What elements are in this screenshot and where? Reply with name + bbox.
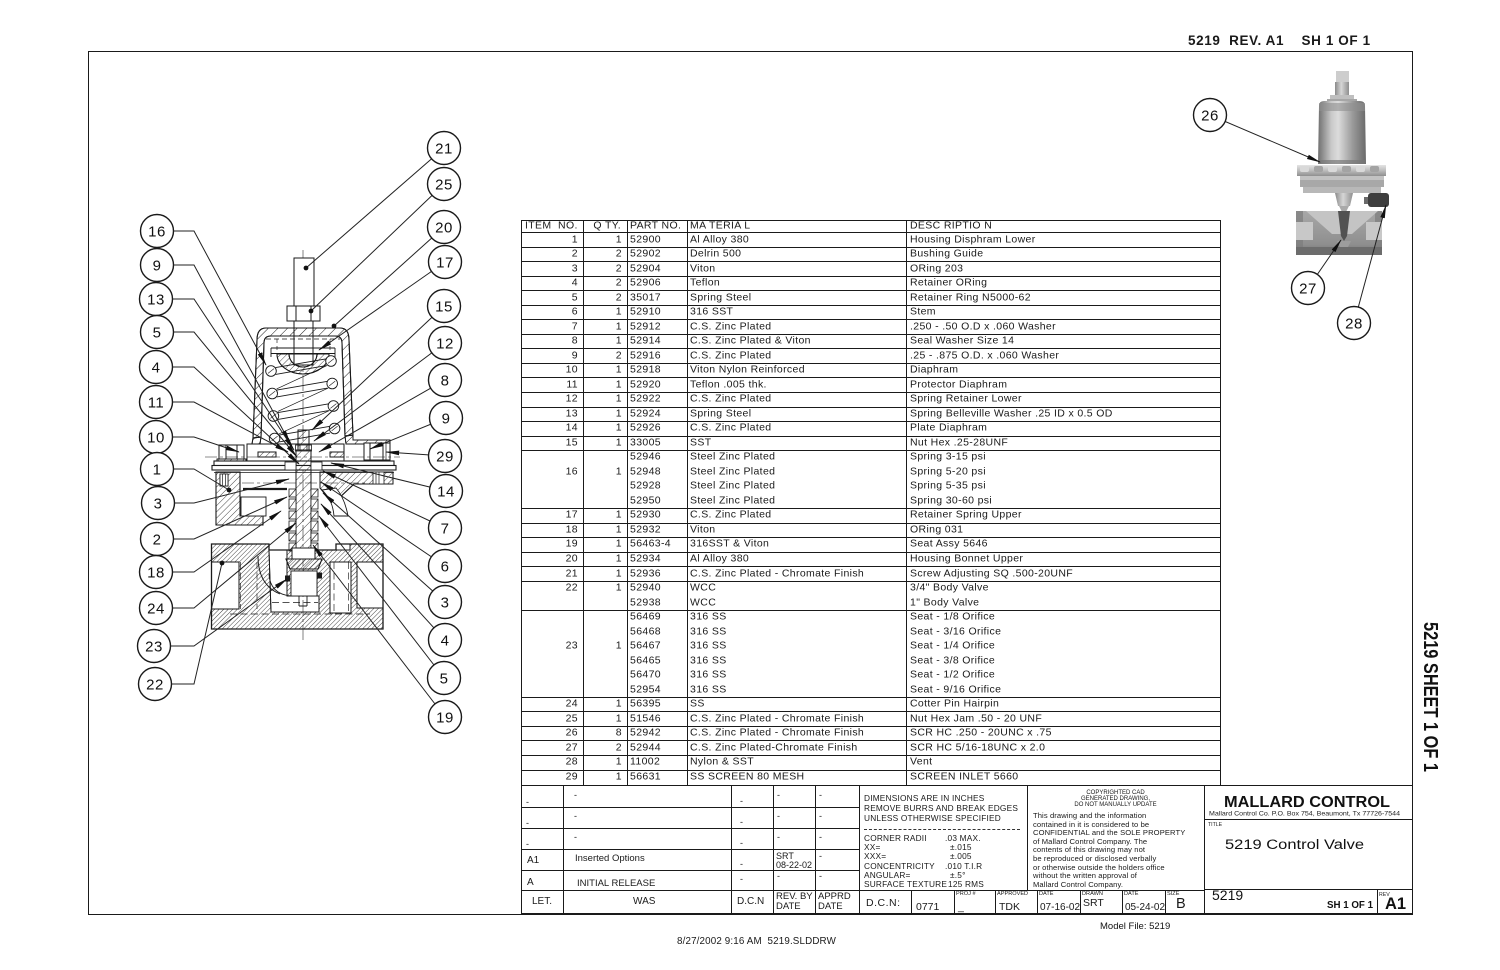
leader line balloon 26 (1210, 115, 1320, 162)
revision history block (521, 785, 563, 890)
hex bolt left item 26 (217, 445, 246, 463)
spring (item 16) (266, 356, 340, 444)
svg-text:14: 14 (437, 483, 455, 500)
housing diaphram lower item 1 (216, 472, 263, 525)
svg-text:29: 29 (436, 448, 454, 465)
balloon 14 (430, 475, 463, 508)
svg-text:19: 19 (436, 709, 454, 726)
balloon 18 (140, 556, 173, 589)
photo vent knob (1364, 197, 1370, 204)
svg-text:25: 25 (435, 176, 453, 193)
leader line balloon 20 (334, 227, 444, 326)
seat assy items 19 23 (292, 548, 315, 559)
leader line balloon 4 (321, 504, 445, 640)
photo: product rendering of 5219 valve (1296, 71, 1389, 255)
leader line balloon 6 (321, 482, 445, 566)
leader line balloon 23 (154, 579, 287, 646)
balloon 26 (1194, 99, 1227, 132)
bonnet skirt (252, 437, 261, 444)
svg-text:4: 4 (441, 632, 450, 649)
svg-text:24: 24 (147, 600, 165, 617)
balloon 19 (429, 701, 462, 734)
balloon 12 (429, 327, 462, 360)
leader line balloon 16 (157, 231, 266, 365)
balloon 13 (140, 283, 173, 316)
leader line balloon 22 (155, 563, 222, 684)
leader line balloon 14 (331, 463, 446, 491)
balloon 23 (138, 630, 171, 663)
leader line balloon 13 (156, 299, 294, 450)
leader line balloon 3 (323, 493, 445, 602)
leader line balloon 15 (312, 306, 444, 430)
leader line balloon 2 (157, 497, 287, 539)
balloon 4 (140, 351, 173, 384)
leader line balloon 17 (319, 262, 445, 350)
photo flange (1297, 165, 1386, 176)
balloon 21 (428, 132, 461, 165)
leader line balloon 4 (156, 367, 299, 464)
balloon 15 (428, 290, 461, 323)
leader line balloon 21 (306, 148, 444, 268)
balloon 27 (1292, 272, 1325, 305)
photo bonnet cylinder (1318, 101, 1366, 164)
flange band (247, 444, 344, 461)
svg-text:3: 3 (154, 495, 163, 512)
svg-text:17: 17 (436, 254, 454, 271)
svg-text:16: 16 (148, 223, 166, 240)
balloon 10 (140, 421, 173, 454)
leader line balloon 3 (158, 479, 289, 503)
dimensions notes (864, 793, 985, 803)
svg-text:28: 28 (1345, 315, 1363, 332)
photo neck (1335, 193, 1353, 206)
bottom file stamp (677, 936, 836, 947)
svg-text:15: 15 (435, 298, 453, 315)
svg-text:5: 5 (153, 324, 162, 341)
svg-text:8: 8 (441, 372, 450, 389)
balloon 8 (429, 364, 462, 397)
leader line balloon 1 (157, 469, 229, 490)
balloon 6 (429, 550, 462, 583)
nut hex item 15 (296, 445, 312, 451)
svg-text:1: 1 (153, 461, 162, 478)
leader line balloon 10 (156, 437, 239, 452)
svg-text:22: 22 (146, 676, 164, 693)
balloon 9 (430, 402, 463, 435)
balloon 5 (428, 662, 461, 695)
leader line balloon 5 (157, 332, 297, 457)
svg-text:23: 23 (145, 638, 163, 655)
svg-text:9: 9 (442, 410, 451, 427)
port thread hidden lines (230, 562, 370, 614)
svg-text:18: 18 (147, 564, 165, 581)
top right sheet id text (1188, 33, 1371, 48)
svg-text:5: 5 (440, 670, 449, 687)
balloon 28 (1338, 307, 1371, 340)
svg-text:2: 2 (153, 531, 162, 548)
svg-text:9: 9 (153, 257, 162, 274)
leader line balloon 18 (156, 511, 281, 572)
balloon 29 (429, 440, 462, 473)
parts list table (521, 220, 1221, 787)
balloon 11 (140, 386, 173, 419)
balloon 7 (429, 512, 462, 545)
cotter pin item 24 (299, 596, 307, 606)
svg-text:11: 11 (148, 394, 165, 411)
svg-text:6: 6 (441, 558, 450, 575)
leader line balloon 11 (156, 402, 288, 452)
balloon 17 (429, 246, 462, 279)
leader line balloon 27 (1308, 240, 1341, 288)
leader line balloon 5 (319, 516, 444, 678)
leader line balloon 19 (313, 545, 445, 717)
svg-text:10: 10 (147, 429, 165, 446)
balloon 20 (428, 211, 461, 244)
svg-text:12: 12 (436, 335, 454, 352)
balloon 1 (141, 453, 174, 486)
screw shank (294, 321, 313, 365)
body valve item 22 (212, 544, 384, 629)
leader line balloon 7 (323, 471, 445, 528)
leader line balloon 9 (370, 418, 446, 449)
leader line balloon 24 (156, 523, 296, 608)
balloon 4 (429, 624, 462, 657)
leader line balloon 12 (314, 343, 445, 441)
leader line balloon 8 (319, 380, 445, 452)
balloon 3 (429, 586, 462, 619)
photo jam nut (1330, 95, 1354, 103)
svg-text:4: 4 (152, 359, 161, 376)
balloon 22 (139, 668, 172, 701)
sheet border frame (88, 51, 1413, 915)
photo body (1296, 211, 1382, 255)
svg-text:20: 20 (435, 219, 453, 236)
stem item 6 (298, 430, 309, 450)
photo adjusting screw (1336, 71, 1349, 82)
screen inlet bolt items 9 29 (364, 443, 390, 460)
bushings items 2 3 4 (289, 489, 318, 551)
svg-text:27: 27 (1299, 280, 1317, 297)
balloon 9 (141, 249, 174, 282)
svg-text:7: 7 (441, 520, 450, 537)
leader line balloon 25 (311, 184, 444, 311)
housing bonnet upper item 20 (253, 328, 353, 438)
adjusting screw item 21 (294, 258, 314, 308)
diaphragm plates items 10 11 14 (214, 461, 394, 466)
balloon 25 (428, 168, 461, 201)
svg-text:3: 3 (441, 594, 450, 611)
svg-text:5219 SHEET 1 OF 1: 5219 SHEET 1 OF 1 (1419, 622, 1441, 772)
revision rows text (526, 797, 529, 807)
leader line balloon 9 (157, 265, 290, 443)
copyright note (1027, 790, 1204, 796)
centerline (302, 250, 304, 640)
dcn strip (866, 897, 901, 909)
svg-text:26: 26 (1201, 107, 1219, 124)
balloon 5 (141, 316, 174, 349)
svg-text:21: 21 (435, 140, 453, 157)
leader line balloon 28 (1354, 205, 1386, 323)
balloon 24 (140, 592, 173, 625)
retainer spring upper item 17 (271, 348, 335, 357)
balloon 16 (141, 215, 174, 248)
leader line balloon 29 (386, 452, 445, 456)
jam nut item 25 (287, 306, 320, 321)
balloon 3 (142, 487, 175, 520)
svg-text:13: 13 (147, 291, 165, 308)
balloon 2 (141, 523, 174, 556)
orings item 3 (286, 576, 290, 581)
